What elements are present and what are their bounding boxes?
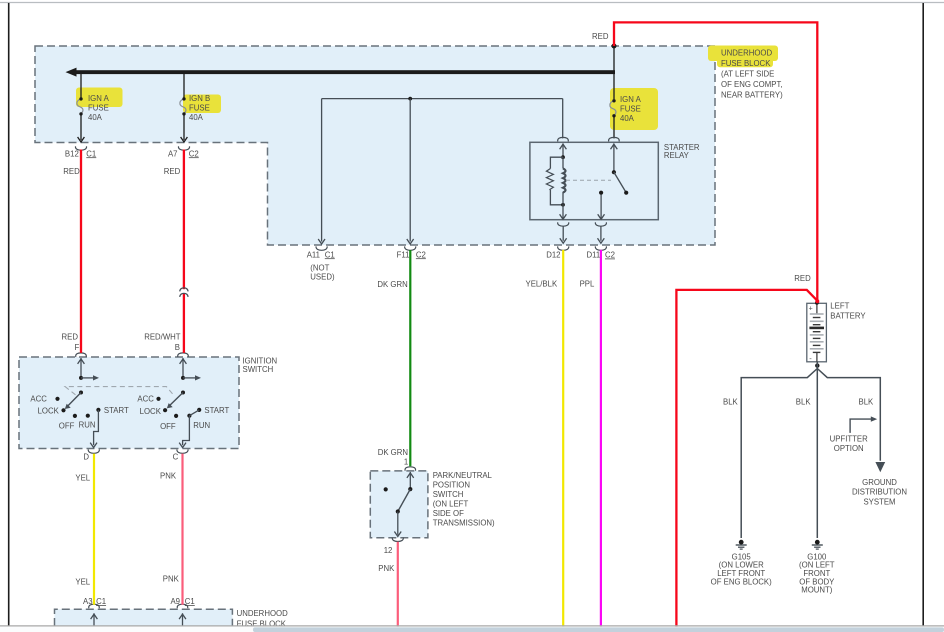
svg-text:GROUND: GROUND xyxy=(862,478,897,487)
svg-text:A11: A11 xyxy=(307,250,320,259)
svg-text:FUSE: FUSE xyxy=(620,105,641,114)
svg-text:RED: RED xyxy=(592,32,609,41)
svg-text:FUSE: FUSE xyxy=(88,104,109,113)
svg-text:RED/WHT: RED/WHT xyxy=(144,332,181,341)
svg-text:IGN A: IGN A xyxy=(620,95,642,104)
svg-text:PPL: PPL xyxy=(580,280,595,289)
svg-text:MOUNT): MOUNT) xyxy=(801,586,833,595)
svg-text:C1: C1 xyxy=(96,597,106,606)
svg-text:B12: B12 xyxy=(65,149,79,158)
svg-text:YEL/BLK: YEL/BLK xyxy=(526,280,558,289)
svg-text:F: F xyxy=(75,343,80,352)
svg-text:UNDERHOOD: UNDERHOOD xyxy=(237,609,288,618)
svg-text:LOCK: LOCK xyxy=(38,407,60,416)
svg-text:BATTERY: BATTERY xyxy=(830,312,866,321)
svg-text:OFF: OFF xyxy=(59,422,75,431)
svg-text:PNK: PNK xyxy=(163,574,180,583)
svg-text:RED: RED xyxy=(63,167,80,176)
svg-text:A3: A3 xyxy=(83,597,93,606)
svg-text:(NOT: (NOT xyxy=(310,264,329,273)
svg-text:BLK: BLK xyxy=(859,398,875,407)
svg-text:OF ENG COMPT,: OF ENG COMPT, xyxy=(721,80,783,89)
svg-text:FUSE BLOCK: FUSE BLOCK xyxy=(721,59,771,68)
svg-text:RELAY: RELAY xyxy=(664,151,690,160)
svg-text:LOCK: LOCK xyxy=(140,407,162,416)
svg-text:RED: RED xyxy=(794,274,811,283)
svg-text:D: D xyxy=(83,452,89,461)
svg-text:YEL: YEL xyxy=(75,474,90,483)
svg-text:RED: RED xyxy=(62,332,79,341)
svg-text:D12: D12 xyxy=(546,251,560,260)
svg-text:IGN B: IGN B xyxy=(189,94,210,103)
svg-text:PARK/NEUTRAL: PARK/NEUTRAL xyxy=(433,471,493,480)
svg-text:F11: F11 xyxy=(397,250,410,259)
svg-text:12: 12 xyxy=(384,546,393,555)
svg-text:START: START xyxy=(204,406,229,415)
svg-text:C2: C2 xyxy=(416,250,426,259)
svg-text:SWITCH: SWITCH xyxy=(243,365,274,374)
svg-text:(AT LEFT SIDE: (AT LEFT SIDE xyxy=(721,69,774,78)
svg-text:UPFITTER: UPFITTER xyxy=(830,434,868,443)
svg-text:START: START xyxy=(104,406,129,415)
svg-text:RED: RED xyxy=(164,167,181,176)
svg-text:BLK: BLK xyxy=(796,398,812,407)
svg-text:B: B xyxy=(175,343,180,352)
svg-text:40A: 40A xyxy=(88,113,103,122)
svg-text:DK GRN: DK GRN xyxy=(377,280,407,289)
svg-text:YEL: YEL xyxy=(75,577,90,586)
svg-text:RUN: RUN xyxy=(79,420,96,429)
svg-text:C1: C1 xyxy=(86,149,96,158)
svg-text:D11: D11 xyxy=(586,251,600,260)
svg-text:TRANSMISSION): TRANSMISSION) xyxy=(433,518,495,527)
svg-text:PNK: PNK xyxy=(378,564,395,573)
svg-text:OPTION: OPTION xyxy=(834,444,864,453)
svg-text:A9: A9 xyxy=(170,597,180,606)
svg-text:40A: 40A xyxy=(620,114,635,123)
svg-text:(ON LEFT: (ON LEFT xyxy=(433,499,469,508)
svg-text:RUN: RUN xyxy=(193,421,210,430)
svg-text:USED): USED) xyxy=(310,272,335,281)
svg-text:NEAR BATTERY): NEAR BATTERY) xyxy=(721,90,783,99)
svg-text:IGN A: IGN A xyxy=(88,94,110,103)
svg-text:C2: C2 xyxy=(189,149,199,158)
svg-text:PNK: PNK xyxy=(160,472,177,481)
svg-text:DK GRN: DK GRN xyxy=(378,448,408,457)
svg-text:A7: A7 xyxy=(168,149,178,158)
svg-text:UNDERHOOD: UNDERHOOD xyxy=(721,48,772,57)
svg-text:OF ENG BLOCK): OF ENG BLOCK) xyxy=(711,577,772,586)
svg-text:ACC: ACC xyxy=(137,395,154,404)
svg-text:SWITCH: SWITCH xyxy=(433,490,464,499)
svg-text:FUSE: FUSE xyxy=(189,104,210,113)
svg-text:DISTRIBUTION: DISTRIBUTION xyxy=(852,488,907,497)
svg-text:40A: 40A xyxy=(189,113,204,122)
svg-text:+: + xyxy=(809,305,813,312)
svg-text:OFF: OFF xyxy=(160,422,176,431)
svg-text:1: 1 xyxy=(404,458,408,467)
svg-text:ACC: ACC xyxy=(30,395,47,404)
svg-text:C: C xyxy=(173,453,179,462)
svg-text:POSITION: POSITION xyxy=(433,480,470,489)
svg-text:SIDE OF: SIDE OF xyxy=(433,509,464,518)
svg-text:C1: C1 xyxy=(325,250,335,259)
svg-text:LEFT: LEFT xyxy=(830,302,849,311)
svg-text:SYSTEM: SYSTEM xyxy=(863,497,895,506)
svg-text:BLK: BLK xyxy=(723,398,739,407)
svg-text:C2: C2 xyxy=(605,251,615,260)
svg-text:C1: C1 xyxy=(185,597,195,606)
